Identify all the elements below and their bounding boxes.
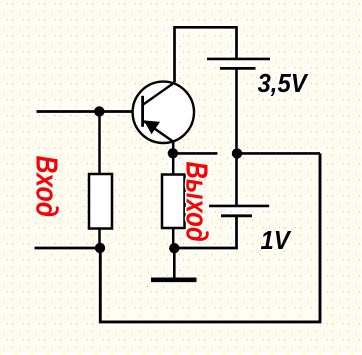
node: bottom-left junction [95,243,105,253]
svg-text:Вход: Вход [30,156,64,218]
node: ground junction [169,243,179,253]
transistor body circle [133,82,194,143]
transistor Q1 (PNP) [133,82,194,143]
battery 1V short plate (-) [221,214,252,217]
wire: input top stub to base [37,110,143,113]
white halo casings under wires [35,27,321,322]
wire: input bottom stub [35,247,101,250]
node: battery junction [232,148,242,158]
battery 3,5V long plate (+) [207,58,270,61]
node: input/base junction [94,106,104,116]
wire: R1 column (node A to node B) [98,112,101,249]
wire: battery node to right rail [232,152,320,155]
base bar [141,96,144,127]
node: emitter junction [168,148,178,158]
wire: collector up, top run, down to battery B1 [175,27,237,82]
ground [151,277,197,282]
wire: ground node down [173,248,176,278]
wire: left rail / bottom rail / right rail loop [100,153,320,322]
wire: R2 column [172,140,175,248]
emitter arrow [144,120,160,134]
wire: battery B1 minus to node, node to battery B2 plus [235,69,238,205]
battery 1V long plate (+) [209,205,269,208]
svg-text:3,5V: 3,5V [258,69,309,98]
battery 3,5V short plate (-) [220,67,256,70]
collector line [143,82,175,105]
svg-text:1V: 1V [261,226,292,255]
emitter line [144,121,173,141]
wire: emitter node to battery node horizontal [173,152,218,155]
svg-text:Выход: Выход [180,162,215,242]
wire: battery B2 minus down and left to ground node [174,217,236,248]
resistor R1 [89,174,112,229]
resistor R2 [162,175,185,229]
